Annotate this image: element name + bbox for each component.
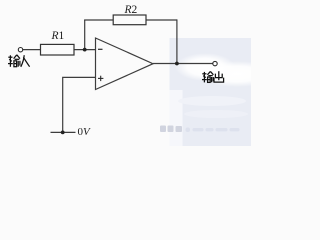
resistor R2 [113, 15, 146, 25]
char shu [8, 55, 20, 67]
svg-text:0V: 0V [78, 126, 92, 138]
char chu [214, 71, 224, 82]
wire node up [84, 20, 86, 50]
label input (Chinese: shu ru) [8, 55, 30, 67]
input terminal [18, 48, 22, 52]
char ru [21, 55, 30, 67]
wire ground [51, 131, 76, 133]
node A junction dot [83, 48, 87, 52]
watermark [160, 126, 182, 133]
node output junction dot [175, 62, 179, 66]
resistor R1 [41, 44, 75, 55]
wire plus input [63, 77, 96, 132]
svg-text:R2: R2 [124, 4, 138, 16]
op-amp U1 [96, 38, 154, 90]
wire input to R1 [23, 49, 41, 51]
wire top right [146, 19, 177, 21]
node ground junction dot [61, 131, 65, 135]
svg-text:R1: R1 [51, 30, 65, 42]
wire top left [84, 19, 113, 21]
char shu [202, 71, 213, 82]
wire output [153, 63, 213, 65]
label output (Chinese: shu chu) [202, 71, 224, 82]
wire R1 to op-amp [74, 49, 96, 51]
op-amp minus pin [98, 48, 103, 50]
output terminal [213, 61, 217, 65]
op-amp plus pin [98, 76, 103, 81]
wire feedback down [176, 19, 178, 63]
